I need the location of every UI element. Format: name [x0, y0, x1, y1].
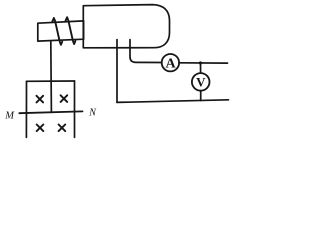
wire: bottom rail from pin 1 to right edge	[117, 100, 229, 103]
coil L1 turn 1	[52, 18, 62, 45]
voltmeter V (circle)	[192, 73, 210, 91]
svg-text:V: V	[196, 75, 206, 90]
flux symbol x (top-right)	[61, 95, 68, 102]
flux symbol x (top-left)	[37, 96, 44, 103]
svg-text:M: M	[4, 111, 15, 122]
field region boundary (top edge)	[27, 80, 75, 82]
rod MN	[19, 111, 82, 113]
svg-text:A: A	[165, 57, 176, 72]
lead pin 2 of U1	[130, 40, 162, 63]
flux symbol x (bottom-right)	[59, 125, 66, 132]
field region boundary (left edge)	[25, 81, 27, 137]
svg-text:N: N	[88, 107, 97, 118]
lead pin 1 of U1	[116, 40, 118, 103]
ammeter A (circle)	[162, 54, 179, 71]
junction node dot	[199, 61, 202, 64]
device body U1 (rounded housing)	[83, 5, 169, 48]
wire: voltmeter down to bottom rail	[200, 91, 202, 101]
wire: coil to rod MN	[50, 41, 53, 112]
field region boundary (right edge)	[74, 81, 76, 137]
wire: junction down to voltmeter	[200, 63, 202, 73]
coil L1 core (rectangle)	[38, 21, 84, 41]
flux symbol x (bottom-left)	[37, 125, 44, 132]
wire: ammeter to right edge (top rail)	[179, 62, 227, 64]
coil L1 turn 2	[65, 17, 75, 44]
